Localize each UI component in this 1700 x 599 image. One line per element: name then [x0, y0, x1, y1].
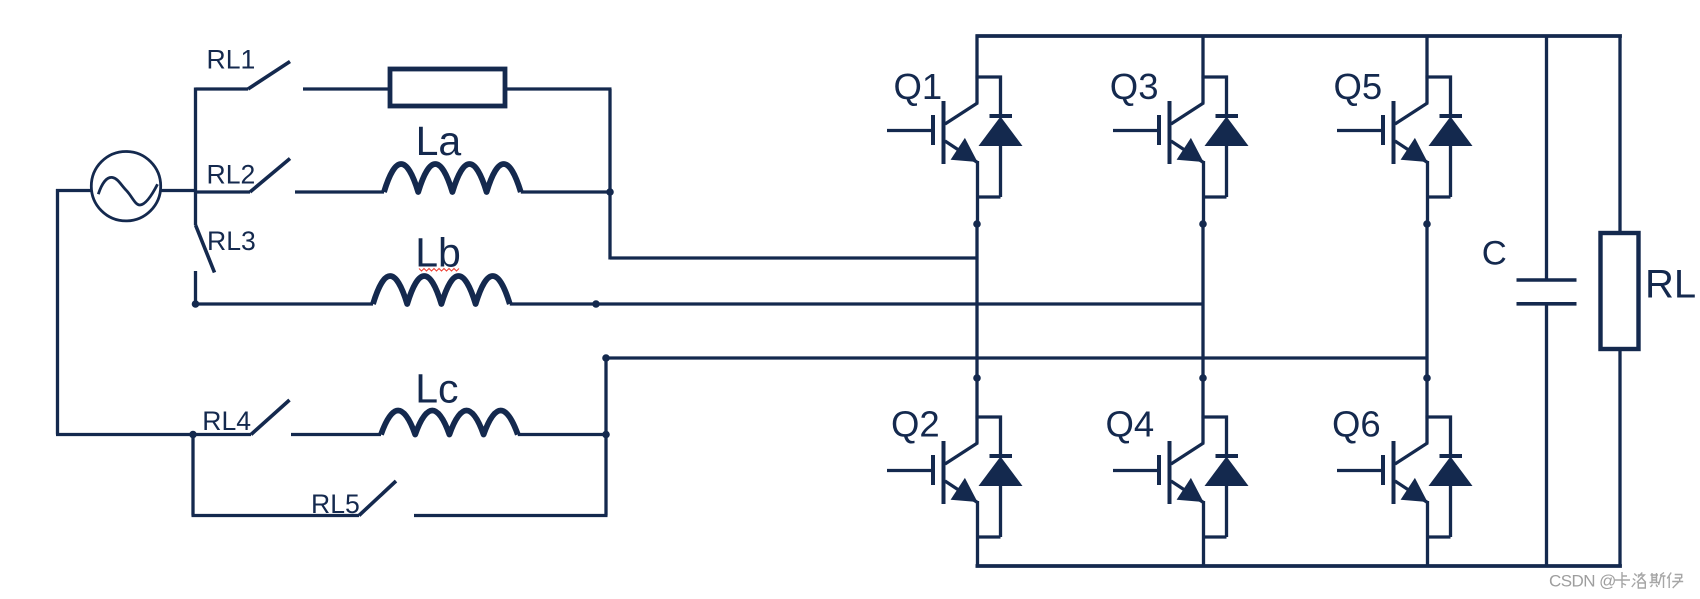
- switch RL3 blade: [196, 225, 215, 273]
- node: Q3 emitter terminal: [1199, 220, 1207, 228]
- wire: RL2 branch to pivot: [196, 190, 251, 193]
- wire: RL5 fixed contact to right vertical: [414, 514, 608, 517]
- wire: left vertical from AC down: [56, 189, 59, 435]
- wire: phase C corner vertical (to Lc and RL5): [604, 358, 607, 516]
- node: Q1 emitter terminal: [973, 220, 981, 228]
- wire: right trunk vertical (RL1 node to RL3): [194, 88, 197, 226]
- node: RL4 branch junction: [189, 431, 197, 439]
- wire: trunk below RL3 to Lb node: [194, 271, 197, 304]
- watermark CJK glyph 卡: [1614, 572, 1683, 588]
- transistor Q1 (IGBT with anti-parallel diode): [887, 34, 1023, 226]
- wire: RL2 fixed contact to La: [295, 190, 384, 193]
- wire: RL bottom lead: [1618, 349, 1621, 566]
- resistor R1 (snubber box): [390, 69, 505, 106]
- svg-text:C: C: [1482, 235, 1507, 273]
- inductor Lc coil: [381, 411, 518, 435]
- wire: resistor to phase-A vertical: [505, 87, 612, 90]
- inductor La coil: [384, 164, 521, 192]
- wire: Q1/Q2 interconnect: [975, 222, 978, 378]
- svg-text:Q6: Q6: [1332, 404, 1381, 445]
- wire: RL4 branch from node to pivot: [193, 433, 251, 436]
- svg-text:La: La: [416, 118, 462, 164]
- wire: Q3/Q4 interconnect: [1201, 222, 1204, 378]
- spellcheck squiggle under Lb: [419, 269, 459, 272]
- wire: left trunk down to RL5 branch: [191, 435, 194, 516]
- transistor Q5 (IGBT with anti-parallel diode): [1337, 34, 1473, 226]
- watermark CJK glyph 斯: [1650, 573, 1666, 589]
- transistor Q3 (IGBT with anti-parallel diode): [1113, 34, 1249, 226]
- wire: RL1 fixed contact to resistor: [303, 87, 390, 90]
- node: Lc output junction: [602, 431, 610, 439]
- wire: RL5 branch to pivot: [192, 514, 360, 517]
- svg-text:Q2: Q2: [891, 404, 940, 445]
- svg-text:RL3: RL3: [207, 226, 256, 256]
- node: Q2 collector terminal: [973, 374, 981, 382]
- svg-text:RL: RL: [1645, 263, 1696, 307]
- svg-text:RL4: RL4: [202, 406, 251, 436]
- node: Q5 emitter terminal: [1423, 220, 1431, 228]
- svg-text:CSDN @: CSDN @: [1549, 572, 1616, 591]
- wire: AC right terminal to trunk: [161, 189, 198, 192]
- svg-text:Lc: Lc: [415, 366, 458, 412]
- AC source V1 circle: [91, 152, 160, 221]
- wire: capacitor bottom lead: [1545, 304, 1548, 566]
- wire: Q5/Q6 interconnect: [1425, 222, 1428, 378]
- transistor Q6 (IGBT with anti-parallel diode): [1337, 374, 1473, 566]
- node: Q4 collector terminal: [1199, 374, 1207, 382]
- svg-text:RL1: RL1: [207, 44, 256, 74]
- node: Lb output junction: [592, 300, 600, 308]
- wire: DC bottom rail: [976, 564, 1622, 568]
- svg-text:Q3: Q3: [1110, 66, 1159, 107]
- wire: RL top lead: [1618, 36, 1621, 233]
- node: Q6 collector terminal: [1423, 374, 1431, 382]
- wire: RL4 fixed contact to Lc: [291, 433, 381, 436]
- wire: Lc to vertical node: [518, 433, 606, 436]
- wire: bottom of left vertical to RL4 node: [56, 433, 193, 436]
- inductor Lb coil: [373, 276, 510, 304]
- svg-text:RL2: RL2: [207, 160, 256, 190]
- wire: phase B horizontal from Lb to Q3/Q4 leg: [510, 302, 1203, 305]
- watermark CJK glyph 伊: [1667, 573, 1683, 589]
- wire: phase A horizontal to Q1/Q2 leg: [610, 256, 977, 259]
- wire: phase C horizontal to Q5/Q6 leg: [606, 356, 1427, 359]
- switch RL4 blade: [251, 400, 290, 435]
- transistor Q4 (IGBT with anti-parallel diode): [1113, 374, 1249, 566]
- wire: Lb branch from trunk to coil: [196, 302, 374, 305]
- wire: La to phase-A node: [521, 190, 610, 193]
- AC source sine wave: [98, 177, 157, 205]
- switch RL5 blade: [359, 481, 396, 516]
- switch RL2 blade: [250, 159, 290, 193]
- node: La/resistor junction: [606, 188, 614, 196]
- wire: capacitor top lead: [1545, 36, 1548, 280]
- transistor Q2 (IGBT with anti-parallel diode): [887, 374, 1023, 566]
- capacitor C top plate: [1517, 278, 1577, 282]
- wire: DC top rail: [976, 34, 1622, 38]
- node: phase C corner: [602, 354, 610, 362]
- resistor RL box: [1601, 233, 1639, 349]
- wire: RL1 branch to pivot: [196, 87, 249, 90]
- capacitor C bottom plate: [1517, 302, 1577, 306]
- svg-text:Q4: Q4: [1106, 404, 1155, 445]
- node: trunk/Lb junction: [192, 300, 200, 308]
- svg-text:Q5: Q5: [1334, 66, 1383, 107]
- switch RL1 blade: [248, 62, 290, 90]
- watermark CJK glyph 洛: [1632, 573, 1646, 589]
- wire: phase A vertical x=610: [608, 89, 611, 260]
- wire: AC left terminal: [56, 189, 92, 192]
- svg-text:Q1: Q1: [894, 66, 943, 107]
- svg-text:RL5: RL5: [311, 489, 360, 519]
